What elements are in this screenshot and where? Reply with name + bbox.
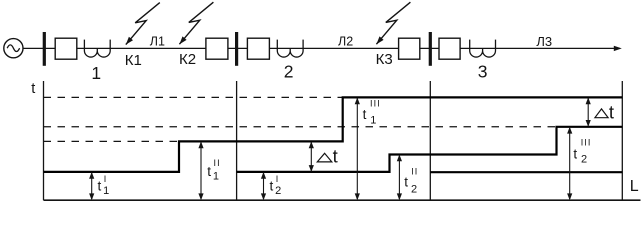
svg-text:1: 1 [370, 115, 376, 127]
svg-text:1: 1 [91, 63, 101, 83]
label t2-I [270, 174, 282, 197]
CT 2 current transformer [277, 40, 303, 57]
bus 3 busbar [429, 32, 432, 66]
t axis vertical [43, 81, 45, 200]
svg-text:II: II [214, 158, 221, 168]
generator G [4, 39, 23, 58]
svg-text:Л1: Л1 [150, 35, 165, 49]
svg-text:t: t [207, 164, 211, 179]
svg-text:t: t [270, 179, 274, 194]
wire main line with end arrow [23, 46, 622, 51]
stepped curve protection 1 [44, 97, 623, 171]
svg-text:t: t [573, 146, 577, 161]
svg-text:t: t [333, 146, 338, 167]
arrow t1-III [355, 97, 360, 200]
svg-text:II: II [411, 167, 418, 177]
dashed level t1-III [44, 96, 343, 98]
breaker 5 circuit breaker [439, 38, 460, 59]
svg-text:t: t [609, 101, 614, 122]
label t1-I [98, 174, 110, 197]
divider at bus 2 [236, 81, 238, 200]
right boundary vertical [621, 81, 623, 200]
svg-text:L: L [630, 178, 639, 195]
divider at bus 3 [429, 81, 431, 200]
dashed level t2-III [44, 126, 557, 128]
arrow t2-III [567, 127, 572, 200]
svg-text:Л2: Л2 [338, 35, 353, 49]
svg-text:Л3: Л3 [536, 34, 552, 49]
K3 fault lightning arrow [376, 2, 410, 44]
svg-text:I: I [276, 174, 279, 184]
svg-text:III: III [370, 99, 381, 109]
svg-text:2: 2 [411, 184, 417, 196]
svg-text:3: 3 [478, 62, 488, 82]
label t1-II [207, 158, 220, 182]
arrow t1-I [89, 172, 94, 200]
label delta-t right [595, 101, 614, 122]
svg-text:2: 2 [275, 185, 281, 197]
svg-text:t: t [404, 175, 408, 190]
label delta-t middle [317, 146, 337, 167]
arrow t2-I [261, 172, 266, 200]
svg-text:III: III [581, 137, 592, 147]
svg-text:2: 2 [581, 153, 587, 165]
dashed level t1-II [44, 140, 180, 142]
svg-text:2: 2 [284, 62, 294, 82]
curve protection 3 [430, 171, 622, 173]
label t2-II [404, 167, 418, 196]
breaker 1 circuit breaker [55, 38, 77, 59]
bus 1 busbar [43, 32, 46, 66]
breaker 2 circuit breaker [206, 38, 228, 59]
CT 1 current transformer [84, 40, 110, 57]
L axis horizontal [44, 199, 641, 201]
svg-text:К1: К1 [125, 52, 142, 69]
svg-text:К2: К2 [179, 51, 196, 68]
stepped curve protection 2 [237, 127, 623, 172]
CT 3 current transformer [470, 40, 496, 57]
arrow delta-t right [586, 97, 591, 126]
breaker 3 circuit breaker [247, 38, 269, 59]
label t1-III [363, 99, 381, 127]
arrow delta-t middle [309, 141, 314, 172]
label t2-III [573, 137, 591, 165]
breaker 4 circuit breaker [399, 38, 420, 59]
svg-text:t: t [31, 81, 35, 97]
arrow t1-II [198, 141, 203, 200]
bus 2 busbar [235, 32, 238, 66]
K1 fault lightning arrow [126, 3, 160, 45]
svg-text:1: 1 [213, 171, 219, 183]
svg-text:I: I [104, 174, 107, 184]
svg-text:t: t [98, 179, 102, 194]
arrow t2-II [397, 155, 402, 201]
K2 fault lightning arrow [179, 2, 213, 44]
svg-text:К3: К3 [376, 51, 393, 68]
svg-text:t: t [363, 107, 367, 122]
svg-text:1: 1 [103, 185, 109, 197]
